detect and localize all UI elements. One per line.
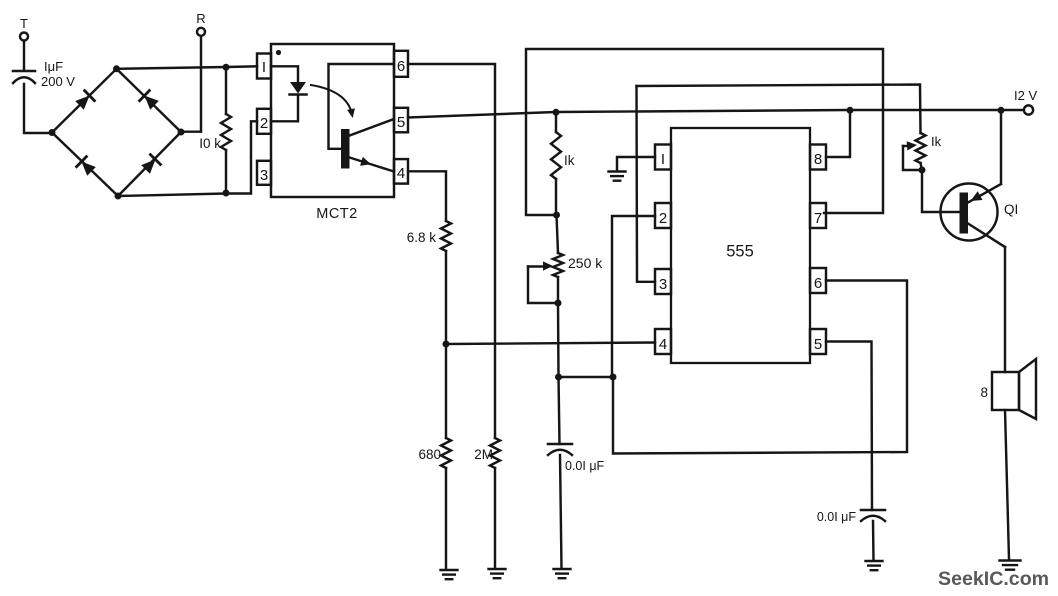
phototransistor collector to pin 5 <box>350 119 395 136</box>
node 1k bottom <box>553 212 560 219</box>
wire output line B to 1k pot <box>637 85 921 134</box>
potentiometer 250k <box>553 215 603 303</box>
node bridge bottom <box>115 193 122 200</box>
svg-text:3: 3 <box>260 167 268 184</box>
svg-text:4: 4 <box>659 336 667 353</box>
wire bridge bottom rail to MCT2 pin2 <box>118 121 257 196</box>
Q1 base bar <box>960 193 969 234</box>
phototransistor emitter to pin 4 <box>350 157 395 172</box>
wire 2M to ground <box>494 468 496 568</box>
svg-text:8: 8 <box>814 151 822 168</box>
svg-text:4: 4 <box>397 165 405 182</box>
svg-text:R: R <box>196 11 205 26</box>
250k wiper arm <box>528 261 558 303</box>
U2 pin 6 <box>810 268 826 293</box>
potentiometer 1k <box>916 133 942 170</box>
node A divider junction <box>443 341 450 348</box>
capacitor C1 1uF 200V <box>13 59 75 89</box>
U2 pin 5 <box>810 329 826 354</box>
node trigger-threshold junction <box>610 374 617 381</box>
wire U1 pin4 to 6.8k <box>408 171 446 221</box>
svg-text:6: 6 <box>397 58 405 75</box>
watermark SeekIC.com <box>938 568 1049 590</box>
U2 pin 8 <box>810 145 826 170</box>
resistor 680 <box>418 344 451 468</box>
U1 pin 4 <box>394 159 408 184</box>
diode D4 bridge bottom-right <box>141 155 160 174</box>
diode D3 bridge bottom-left <box>77 157 96 176</box>
U1 pin 1 <box>257 54 271 79</box>
svg-text:Ik: Ik <box>564 153 575 168</box>
phototransistor base bar <box>341 129 350 169</box>
wire bridge right node to R line <box>181 130 201 132</box>
node Q1 emitter 12V <box>998 107 1005 114</box>
wire bridge edge right-bottom <box>118 132 181 196</box>
wire U1 pin6 to 2M <box>408 64 495 438</box>
ground under speaker <box>1000 561 1021 570</box>
resistor 6.8k <box>407 221 451 251</box>
terminal 12V <box>1014 88 1037 115</box>
wire bridge edge left-top <box>52 69 117 133</box>
ground under C3 <box>866 561 883 570</box>
Q1 emitter lead <box>968 184 1001 203</box>
wire U1 pin1 to LED anode <box>271 66 298 82</box>
node 1k pot bottom <box>919 167 926 174</box>
wire T to C1 <box>23 41 25 69</box>
svg-text:555: 555 <box>726 243 754 261</box>
U2 pin 4 <box>655 329 671 354</box>
svg-text:I0 k: I0 k <box>199 136 221 151</box>
op-amp U2 555 body <box>671 128 810 363</box>
wire pot bottom to Q1 base <box>922 170 959 212</box>
U1 pin 2 <box>257 109 271 134</box>
wire 555 pin1 to ground <box>617 157 655 170</box>
resistor 10k <box>199 67 231 193</box>
svg-text:T: T <box>20 16 28 31</box>
U1 pin 3 <box>257 161 271 185</box>
wire C3 to ground <box>872 521 875 560</box>
node timing cap top <box>555 374 562 381</box>
capacitor C2 0.01uF <box>548 377 605 473</box>
wire bridge edge top-right <box>117 69 182 132</box>
ground under C2 <box>554 569 571 578</box>
wire Q1 collector to speaker <box>1004 247 1006 372</box>
wire bridge top rail to MCT2 pin1 <box>117 66 258 69</box>
U1 polarity dot <box>276 50 281 55</box>
wire 555 pin8 to 12V rail <box>826 110 850 157</box>
svg-text:SeekIC.com: SeekIC.com <box>938 568 1049 590</box>
ground under 680 <box>441 570 458 579</box>
wire 6.8k to node A <box>445 251 447 344</box>
diode D1 bridge top-left <box>75 91 94 110</box>
wire 555 pin2 riser <box>612 216 655 377</box>
terminal R <box>196 11 205 36</box>
svg-text:I2 V: I2 V <box>1014 88 1037 103</box>
svg-text:5: 5 <box>814 336 822 353</box>
wire C2 to ground <box>560 455 562 568</box>
node bridge right <box>178 129 185 136</box>
svg-text:Ik: Ik <box>931 134 942 149</box>
wire node A to 555 pin4 <box>446 343 655 345</box>
svg-text:QI: QI <box>1004 202 1018 217</box>
node bridge left <box>49 129 56 136</box>
node 10k bottom <box>223 190 230 197</box>
wire 555 pin6 loop <box>613 281 907 454</box>
ground at 555 pin1 <box>609 172 626 181</box>
label 555 <box>726 243 754 261</box>
svg-text:7: 7 <box>814 210 822 227</box>
transistor Q1 circle <box>941 184 998 241</box>
node 250k bottom <box>555 300 562 307</box>
U2 pin 2 <box>655 203 671 228</box>
U1 pin 6 <box>394 51 408 77</box>
speaker 8 ohm <box>980 359 1036 419</box>
wire 555 pin3 riser <box>637 86 656 282</box>
wire timing node link <box>559 376 614 378</box>
svg-text:MCT2: MCT2 <box>316 206 357 222</box>
wire 555 pin5 to C3 <box>826 342 872 511</box>
svg-text:200 V: 200 V <box>41 74 75 89</box>
wire R down to bridge right node <box>200 36 202 131</box>
svg-text:2: 2 <box>659 210 667 227</box>
ground under 2M <box>489 569 506 578</box>
svg-text:6.8 k: 6.8 k <box>407 230 437 245</box>
wire discharge loop pin7 to 1k bottom <box>526 49 883 215</box>
label MCT2 <box>316 206 357 222</box>
wire 12V rail from U1 pin5 <box>408 110 1023 118</box>
light coupling arrow <box>311 85 355 118</box>
svg-text:2M: 2M <box>474 447 493 462</box>
svg-text:250 k: 250 k <box>568 255 603 271</box>
resistor 1k <box>551 112 575 215</box>
LED inside U1 <box>290 82 307 95</box>
svg-text:IμF: IμF <box>44 59 63 74</box>
diode D2 bridge top-right <box>140 91 159 110</box>
U1 pin 5 <box>394 108 408 133</box>
svg-text:2: 2 <box>260 115 268 132</box>
wire speaker to ground <box>1005 410 1009 559</box>
node bridge top <box>113 65 120 72</box>
1k pot wiper arm <box>903 141 922 170</box>
wire bridge edge bottom-left <box>52 133 118 197</box>
label Q1 <box>1004 202 1018 217</box>
wire C1 to bridge left node <box>24 84 51 133</box>
resistor 2M <box>474 438 500 468</box>
svg-text:680: 680 <box>418 447 441 462</box>
wire 12V to Q1 emitter <box>1000 110 1002 184</box>
svg-text:5: 5 <box>397 114 405 131</box>
Q1 collector lead <box>968 224 1005 248</box>
U2 pin 1 <box>655 145 671 170</box>
svg-text:0.0I μF: 0.0I μF <box>817 510 857 524</box>
U2 pin 7 <box>810 203 826 228</box>
U2 pin 3 <box>655 269 671 294</box>
op-amp U1 MCT2 body <box>271 44 394 197</box>
node 10k top <box>223 64 230 71</box>
svg-text:0.0I μF: 0.0I μF <box>565 459 605 473</box>
wire phototransistor base loop to pin 6 <box>329 64 395 149</box>
wire 680 to ground <box>445 468 447 569</box>
wire 250k bottom to timing node <box>557 303 560 377</box>
capacitor C3 0.01uF <box>817 510 885 524</box>
wire LED cathode to U1 pin2 <box>271 95 298 121</box>
node pin8 12V <box>847 107 854 114</box>
node 1k top on 12V rail <box>553 109 560 116</box>
svg-text:I: I <box>661 151 665 168</box>
terminal T <box>20 16 28 41</box>
svg-text:8: 8 <box>980 385 988 400</box>
svg-text:6: 6 <box>814 275 822 292</box>
svg-text:3: 3 <box>659 276 667 293</box>
svg-text:I: I <box>262 59 266 76</box>
